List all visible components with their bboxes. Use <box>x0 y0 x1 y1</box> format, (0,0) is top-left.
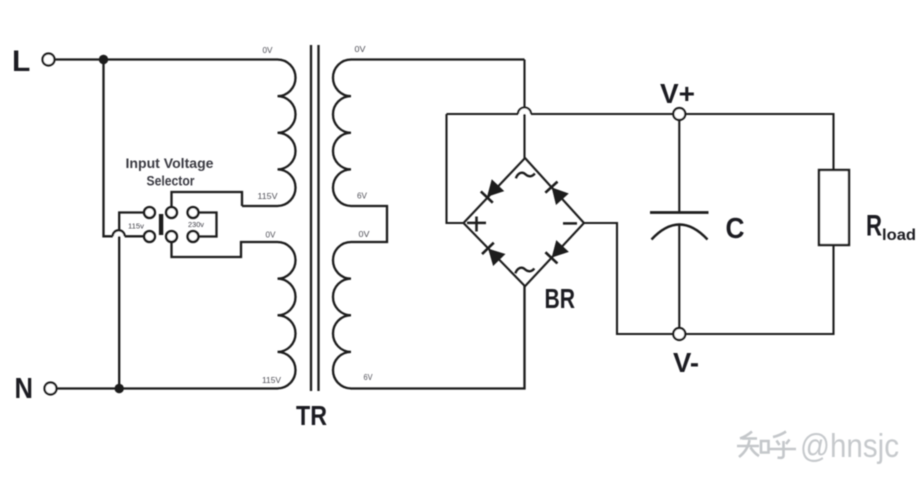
svg-text:115v: 115v <box>128 222 144 231</box>
svg-text:BR: BR <box>545 283 576 314</box>
svg-text:N: N <box>15 373 34 405</box>
svg-text:0V: 0V <box>359 230 371 239</box>
svg-text:@hnsjc: @hnsjc <box>800 427 899 464</box>
svg-text:6V: 6V <box>357 192 368 201</box>
svg-text:V+: V+ <box>660 78 695 109</box>
svg-text:6V: 6V <box>364 373 374 382</box>
svg-text:TR: TR <box>296 400 327 431</box>
svg-text:L: L <box>12 45 30 78</box>
svg-text:115V: 115V <box>262 376 282 385</box>
svg-text:0V: 0V <box>266 231 277 240</box>
svg-text:R: R <box>866 210 882 243</box>
svg-text:Selector: Selector <box>147 173 195 189</box>
svg-text:115V: 115V <box>258 192 279 201</box>
svg-text:230v: 230v <box>188 220 204 229</box>
svg-text:Input Voltage: Input Voltage <box>126 155 214 171</box>
svg-text:0V: 0V <box>355 45 367 54</box>
svg-text:V-: V- <box>673 347 699 378</box>
svg-text:0V: 0V <box>263 46 274 55</box>
svg-text:C: C <box>726 213 745 245</box>
svg-text:load: load <box>882 227 916 244</box>
